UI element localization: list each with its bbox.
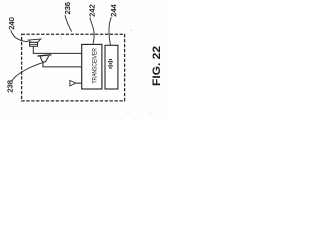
battery B244 box xyxy=(105,45,118,89)
antenna xyxy=(70,80,76,86)
svg-text:242: 242 xyxy=(87,4,96,17)
leader 236 xyxy=(65,15,72,31)
speaker 240 body xyxy=(30,42,38,46)
battery symbol xyxy=(108,60,113,68)
leader 242 xyxy=(90,17,94,44)
svg-text:FIG. 22: FIG. 22 xyxy=(151,46,163,86)
svg-text:238: 238 xyxy=(5,80,14,93)
leader 244 xyxy=(109,17,111,45)
leader 240 xyxy=(11,30,29,42)
wire speaker to transceiver xyxy=(33,46,81,53)
microphone 238 cup xyxy=(40,56,48,62)
svg-text:TRANSCEIVER: TRANSCEIVER xyxy=(92,48,99,84)
scan specks xyxy=(131,30,132,31)
leader 238 xyxy=(12,62,45,81)
svg-text:244: 244 xyxy=(109,4,118,17)
enclosure 236 dashed housing xyxy=(22,34,125,101)
transceiver U242 box xyxy=(82,44,102,89)
svg-text:240: 240 xyxy=(7,17,16,30)
svg-text:236: 236 xyxy=(63,2,72,15)
speaker 240 horn xyxy=(28,39,40,42)
wire antenna to transceiver xyxy=(76,82,82,84)
wire microphone to transceiver xyxy=(43,62,82,67)
microphone 238 top plate xyxy=(38,55,52,56)
